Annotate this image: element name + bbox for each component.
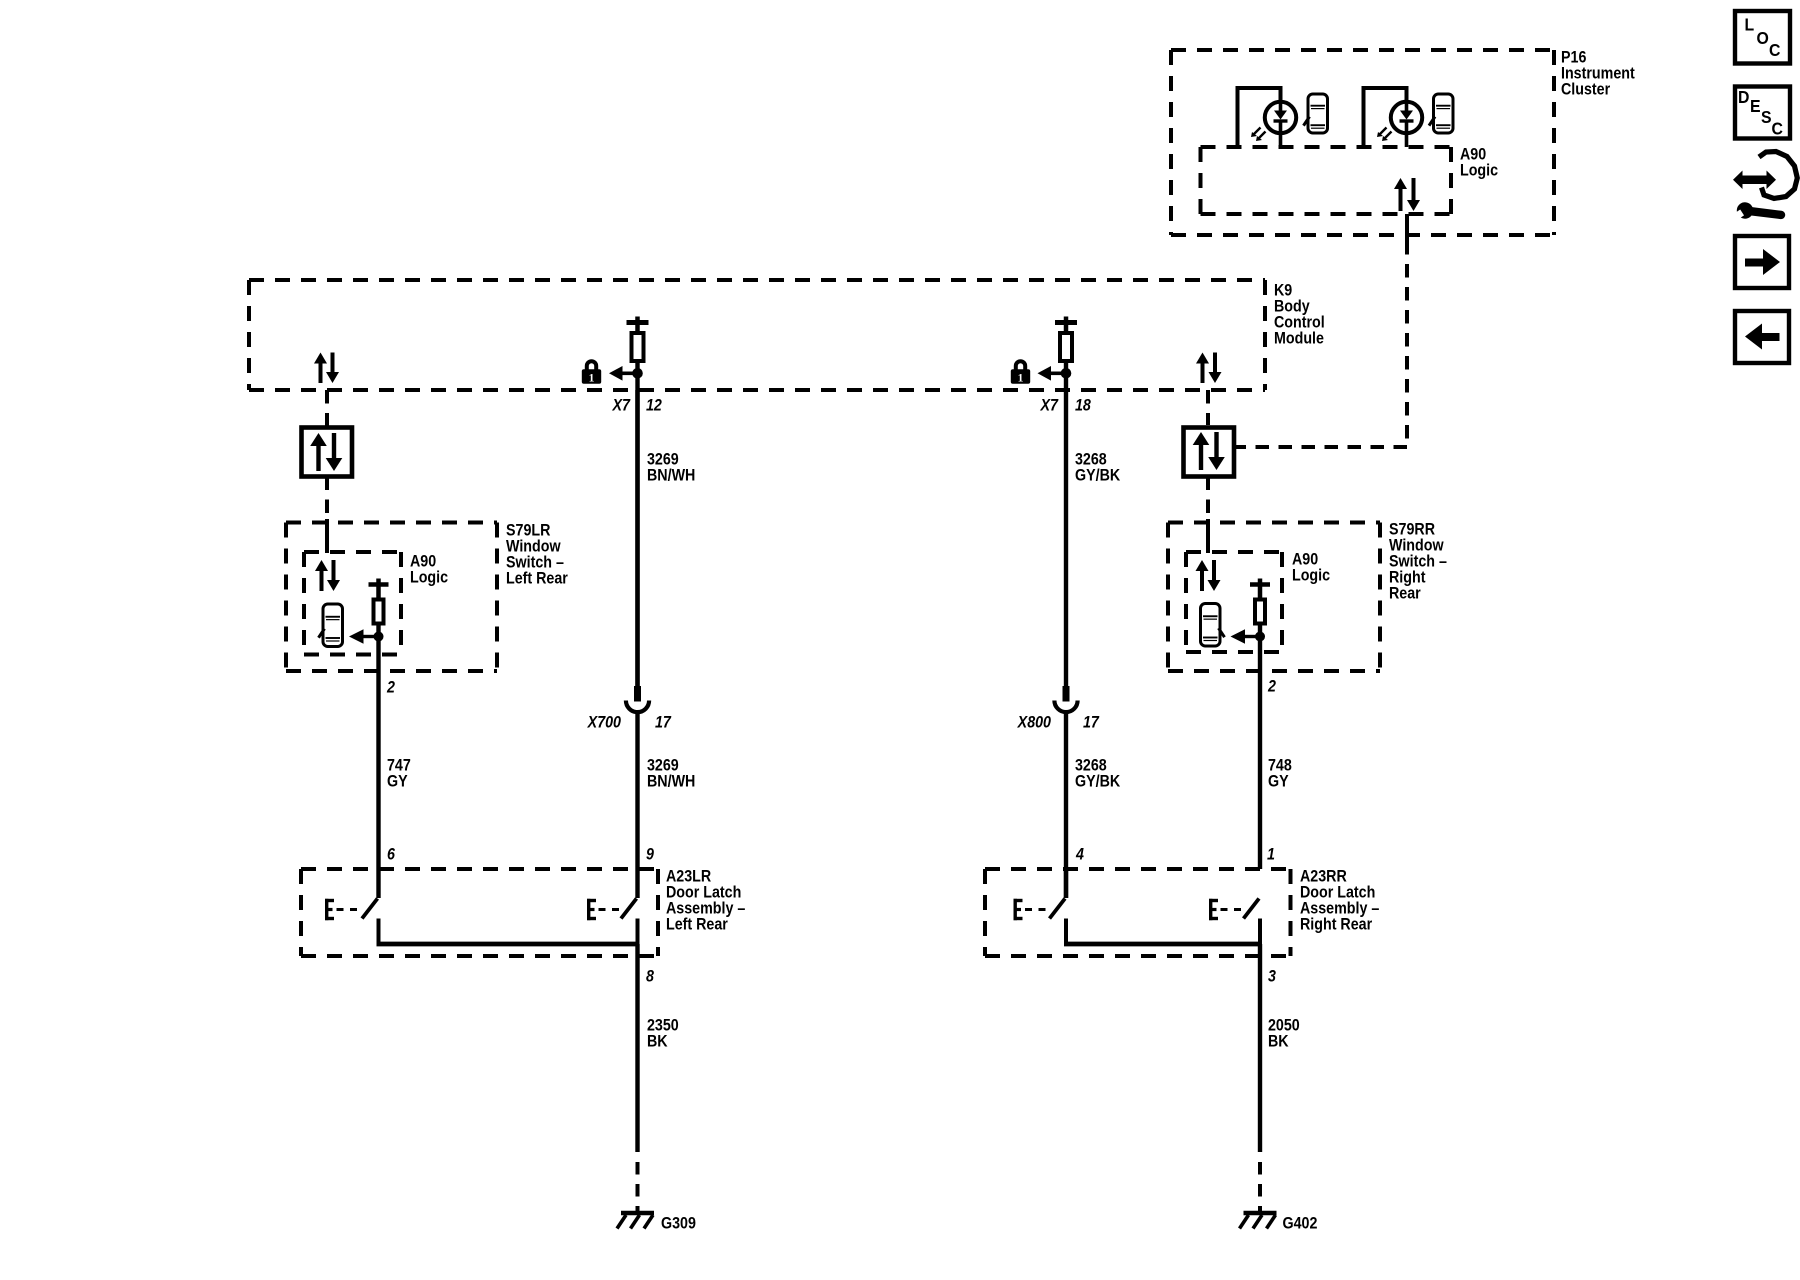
- svg-text:3: 3: [1268, 967, 1276, 985]
- svg-text:GY/BK: GY/BK: [1075, 466, 1121, 484]
- svg-text:1: 1: [589, 372, 595, 384]
- svg-text:GY/BK: GY/BK: [1075, 772, 1121, 790]
- svg-text:8: 8: [646, 967, 654, 985]
- svg-text:6: 6: [387, 845, 395, 863]
- svg-text:Cluster: Cluster: [1561, 80, 1610, 98]
- svg-text:Right Rear: Right Rear: [1300, 915, 1372, 933]
- svg-text:C: C: [1769, 40, 1780, 60]
- svg-text:Left Rear: Left Rear: [666, 915, 728, 933]
- svg-text:O: O: [1757, 28, 1769, 48]
- svg-text:1: 1: [1018, 372, 1024, 384]
- svg-text:Logic: Logic: [1460, 161, 1498, 179]
- svg-text:C: C: [1772, 119, 1783, 139]
- svg-text:BN/WH: BN/WH: [647, 772, 695, 790]
- svg-text:BN/WH: BN/WH: [647, 466, 695, 484]
- svg-text:G402: G402: [1283, 1214, 1318, 1232]
- svg-text:Logic: Logic: [1292, 566, 1330, 584]
- svg-text:Rear: Rear: [1389, 584, 1421, 602]
- svg-text:Left Rear: Left Rear: [506, 569, 568, 587]
- svg-text:GY: GY: [387, 772, 408, 790]
- svg-text:X700: X700: [587, 713, 621, 731]
- svg-text:GY: GY: [1268, 772, 1289, 790]
- svg-text:G309: G309: [661, 1214, 696, 1232]
- svg-text:18: 18: [1075, 396, 1091, 414]
- svg-text:X7: X7: [1040, 396, 1060, 414]
- svg-text:E: E: [1750, 96, 1761, 116]
- svg-text:S: S: [1761, 107, 1772, 127]
- svg-text:17: 17: [655, 713, 672, 731]
- svg-text:Logic: Logic: [410, 568, 448, 586]
- svg-text:L: L: [1745, 15, 1755, 35]
- svg-text:BK: BK: [1268, 1032, 1289, 1050]
- svg-text:4: 4: [1075, 845, 1084, 863]
- svg-text:12: 12: [646, 396, 662, 414]
- svg-text:2: 2: [386, 678, 395, 696]
- svg-text:2: 2: [1267, 677, 1276, 695]
- svg-text:9: 9: [646, 845, 654, 863]
- svg-text:BK: BK: [647, 1032, 668, 1050]
- svg-text:X800: X800: [1017, 713, 1051, 731]
- svg-text:Module: Module: [1274, 329, 1324, 347]
- svg-text:1: 1: [1267, 845, 1275, 863]
- svg-text:17: 17: [1083, 713, 1100, 731]
- svg-text:X7: X7: [612, 396, 632, 414]
- svg-text:D: D: [1738, 87, 1749, 107]
